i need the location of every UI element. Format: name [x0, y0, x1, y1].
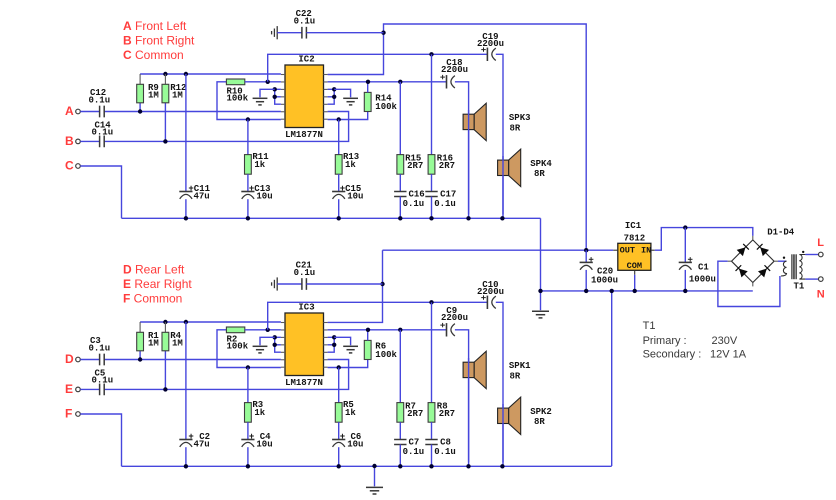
svg-text:D1-D4: D1-D4: [767, 228, 795, 238]
ground (lower rail): [374, 466, 376, 486]
svg-text:LM1877N: LM1877N: [285, 130, 323, 140]
speaker SPK1: [474, 351, 486, 388]
wire C22 to supply line: [306, 32, 383, 34]
wire IC2 pin L7 to R10: [217, 82, 281, 120]
svg-text:47u: 47u: [194, 192, 210, 202]
svg-text:7812: 7812: [624, 233, 646, 243]
resistor R16: [431, 54, 433, 154]
svg-text:IC3: IC3: [298, 303, 314, 313]
resistor R3: [247, 368, 249, 403]
svg-text:IC2: IC2: [298, 55, 314, 65]
wire input A: [80, 111, 99, 113]
resistor R11: [247, 120, 249, 155]
svg-text:0.1u: 0.1u: [89, 95, 111, 105]
speaker SPK3: [474, 103, 486, 140]
svg-text:1k: 1k: [254, 408, 265, 418]
wire input E: [80, 388, 99, 390]
ground (left): [260, 89, 275, 97]
wire input C to ground rail: [80, 166, 121, 218]
wire C18 to speaker SPK3: [455, 82, 469, 219]
svg-text:A Front Left: A Front Left: [123, 19, 187, 33]
svg-text:C1: C1: [698, 263, 709, 273]
capacitor C2 47u: [185, 322, 187, 440]
svg-text:1000u: 1000u: [591, 275, 618, 285]
svg-text:100k: 100k: [375, 102, 397, 112]
svg-text:0.1u: 0.1u: [294, 268, 316, 278]
wire R2 to IC3 pin L2: [245, 329, 281, 331]
capacitor C17 0.1u: [431, 174, 433, 191]
svg-text:IN: IN: [641, 246, 651, 256]
capacitor C5 0.1u: [99, 384, 101, 396]
speaker SPK4: [509, 149, 521, 186]
transformer T1: [781, 261, 787, 276]
capacitor C13 10u: [247, 174, 249, 191]
resistor R6: [364, 340, 371, 359]
svg-text:E Rear Right: E Rear Right: [123, 277, 192, 291]
svg-text:D Rear Left: D Rear Left: [123, 263, 185, 277]
wire IC2 pin L2 to capacitor C19: [268, 54, 488, 82]
resistor R4: [164, 322, 166, 332]
wire through speaker SPK1: [468, 358, 470, 462]
svg-text:2200u: 2200u: [441, 65, 468, 75]
wire IC2 pin L1 feedback bus: [140, 73, 281, 75]
svg-text:10u: 10u: [256, 192, 272, 202]
svg-text:2200u: 2200u: [477, 287, 504, 297]
svg-text:SPK4: SPK4: [530, 159, 552, 169]
svg-text:C: C: [65, 159, 74, 173]
svg-text:10u: 10u: [347, 192, 363, 202]
wire IC3 pins L3-L5 ground bracket: [275, 337, 281, 352]
svg-text:L: L: [817, 237, 824, 249]
svg-text:OUT: OUT: [620, 246, 635, 256]
ground (right): [334, 337, 350, 345]
capacitor C20 1000u: [585, 250, 587, 262]
capacitor C1 1000u: [684, 228, 686, 263]
wire bridge AC left loop to transformer secondary: [718, 261, 780, 306]
wire lower ground rail riser: [611, 291, 613, 466]
svg-text:E: E: [65, 382, 73, 396]
wire C10 to speaker SPK2: [496, 302, 503, 466]
wire IC2 pin R2 output: [328, 81, 447, 83]
wire IC3 pin L7 to R2: [217, 330, 281, 368]
wire IC1 IN to bridge: [655, 228, 753, 251]
svg-text:0.1u: 0.1u: [92, 376, 114, 386]
svg-text:100k: 100k: [375, 350, 397, 360]
svg-text:SPK2: SPK2: [530, 407, 552, 417]
svg-text:8R: 8R: [510, 372, 521, 382]
diode D1 (bridge top-left): [737, 244, 749, 256]
capacitor C6 10u: [338, 422, 340, 439]
capacitor C10 2200u: [486, 296, 488, 309]
diode D3 (bridge bottom-left): [735, 265, 747, 277]
capacitor C16 0.1u: [399, 174, 401, 191]
capacitor C21 0.1u supply bypass: [276, 277, 278, 290]
power ground rail: [541, 290, 753, 292]
svg-text:F: F: [65, 407, 72, 421]
capacitor C8 0.1u: [431, 422, 433, 439]
wire IC2 pin R7: [328, 112, 368, 120]
svg-text:B: B: [65, 134, 74, 148]
svg-text:F Common: F Common: [123, 291, 182, 305]
svg-text:10u: 10u: [347, 440, 363, 450]
IC1 pin IN stub: [651, 249, 655, 251]
resistor R14: [364, 92, 371, 111]
phase dot secondary: [783, 257, 785, 259]
capacitor C11 47u: [185, 74, 187, 192]
resistor R8: [431, 302, 433, 402]
svg-text:Secondary :12V 1A: Secondary :12V 1A: [643, 349, 747, 361]
regulator IC1 7812: [618, 243, 651, 270]
capacitor C3 0.1u: [99, 354, 101, 366]
svg-text:1k: 1k: [345, 408, 356, 418]
svg-text:SPK3: SPK3: [509, 113, 531, 123]
svg-text:0.1u: 0.1u: [434, 199, 456, 209]
svg-text:T1: T1: [643, 320, 656, 332]
wire primary to terminal L: [805, 254, 818, 256]
wire IC3 pin L1 feedback bus: [140, 321, 281, 323]
svg-text:2R7: 2R7: [407, 409, 423, 419]
wire supply V+ from IC2 pin R1 to regulator output line: [328, 24, 587, 250]
wire C9 to speaker SPK1: [455, 330, 469, 467]
svg-text:T1: T1: [794, 282, 805, 292]
resistor R2: [226, 327, 244, 333]
wire C21 to supply riser: [306, 283, 382, 285]
svg-text:0.1u: 0.1u: [434, 447, 456, 457]
ground rail: [122, 217, 541, 219]
svg-text:10u: 10u: [256, 440, 272, 450]
svg-text:0.1u: 0.1u: [403, 199, 425, 209]
wire IC3 pin R2 output: [328, 329, 447, 331]
svg-text:1000u: 1000u: [689, 274, 716, 284]
svg-text:SPK1: SPK1: [509, 361, 531, 371]
capacitor C22 0.1u supply bypass: [276, 26, 278, 39]
svg-text:2R7: 2R7: [407, 161, 423, 171]
wire bridge AC right to secondary top: [778, 260, 787, 262]
resistor R5: [338, 368, 340, 403]
svg-text:0.1u: 0.1u: [92, 128, 114, 138]
resistor R12: [164, 74, 166, 84]
svg-text:8R: 8R: [510, 124, 521, 134]
ground (left): [260, 337, 275, 345]
resistor R15: [399, 82, 401, 155]
svg-text:2R7: 2R7: [439, 409, 455, 419]
wire IC1 COM to ground rail: [634, 275, 636, 291]
capacitor C12 0.1u: [99, 106, 101, 118]
wire C19 to speaker SPK4: [496, 54, 503, 218]
svg-text:1M: 1M: [148, 90, 159, 100]
svg-text:100k: 100k: [227, 342, 249, 352]
resistor R7: [399, 330, 401, 403]
wire input D: [80, 359, 99, 361]
terminal N: [819, 277, 824, 282]
op-amp IC3 (LM1877N): [285, 313, 324, 376]
svg-text:Primary :230V: Primary :230V: [643, 335, 738, 347]
svg-text:2R7: 2R7: [439, 161, 455, 171]
phase dot primary: [802, 251, 804, 253]
wire regulator output line: [383, 249, 614, 251]
wire primary to terminal N: [805, 278, 818, 280]
ground rail: [122, 465, 612, 467]
svg-text:0.1u: 0.1u: [89, 343, 111, 353]
wire IC2 pins R3-R5 ground bracket: [328, 89, 335, 104]
wire top ground rail down to star ground: [540, 218, 542, 310]
resistor R9: [139, 74, 141, 84]
wire input B: [80, 140, 99, 142]
svg-text:COM: COM: [627, 261, 642, 271]
svg-text:A: A: [65, 104, 74, 118]
ground (right): [334, 89, 350, 97]
svg-text:0.1u: 0.1u: [403, 447, 425, 457]
wire IC3 pin R7: [328, 360, 368, 368]
svg-text:1k: 1k: [345, 160, 356, 170]
diode D4 (bridge bottom-right): [758, 265, 770, 277]
wire through speaker SPK2: [502, 404, 504, 462]
speaker SPK2: [509, 397, 521, 434]
wire supply from IC3 pin R1 up to regulator output line: [328, 250, 383, 322]
svg-text:0.1u: 0.1u: [294, 17, 316, 27]
capacitor C15 10u: [338, 174, 340, 191]
capacitor C19 2200u: [486, 48, 488, 61]
diode D2 (bridge top-right): [757, 244, 769, 256]
wire IC2 pins L3-L5 ground bracket: [275, 89, 281, 104]
capacitor C4 10u: [247, 422, 249, 439]
svg-text:1M: 1M: [148, 338, 159, 348]
svg-text:IC1: IC1: [625, 221, 642, 231]
IC1 pin COM stub: [634, 270, 636, 275]
svg-text:8R: 8R: [534, 417, 545, 427]
capacitor C9 2200u: [446, 323, 448, 336]
svg-text:B Front Right: B Front Right: [123, 33, 195, 47]
wire through speaker SPK4: [502, 156, 504, 214]
svg-text:C Common: C Common: [123, 48, 184, 62]
terminal L: [819, 252, 824, 257]
op-amp IC2 (LM1877N): [285, 65, 324, 128]
svg-text:1M: 1M: [172, 338, 183, 348]
resistor R10: [226, 79, 244, 85]
svg-text:8R: 8R: [534, 169, 545, 179]
svg-text:47u: 47u: [194, 440, 210, 450]
wire R10 to IC2 pin L2: [245, 81, 281, 83]
svg-text:LM1877N: LM1877N: [285, 378, 323, 388]
svg-text:1M: 1M: [172, 90, 183, 100]
svg-text:100k: 100k: [227, 94, 249, 104]
svg-text:D: D: [65, 352, 74, 366]
svg-text:1k: 1k: [254, 160, 265, 170]
wire through speaker SPK3: [468, 110, 470, 214]
capacitor C18 2200u: [446, 75, 448, 88]
wire IC3 pin L2 to capacitor C10: [268, 302, 488, 330]
IC1 pin OUT stub: [613, 249, 618, 251]
resistor R13: [338, 120, 340, 155]
wire input F to ground rail: [80, 414, 121, 466]
capacitor C14 0.1u: [99, 136, 101, 148]
svg-text:N: N: [817, 289, 825, 301]
wire IC3 pins R3-R5 ground bracket: [328, 337, 335, 352]
svg-text:2200u: 2200u: [477, 39, 504, 49]
ground (star point): [532, 310, 549, 312]
resistor R1: [139, 322, 141, 332]
svg-text:2200u: 2200u: [441, 313, 468, 323]
capacitor C7 0.1u: [399, 422, 401, 439]
